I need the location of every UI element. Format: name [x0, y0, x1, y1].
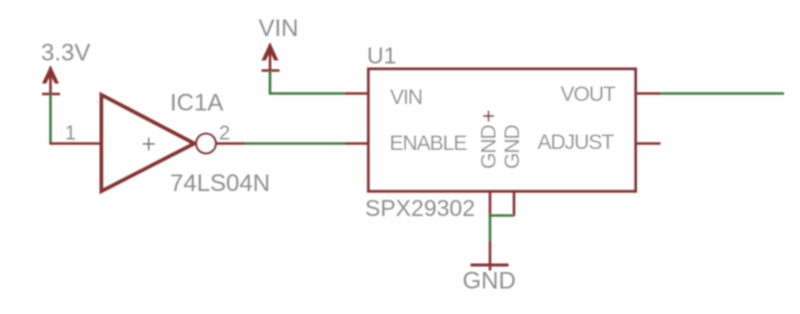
inverter IC1A triangle: [102, 95, 195, 191]
svg-text:VOUT: VOUT: [561, 83, 617, 106]
wire net GND jog: [490, 216, 514, 242]
ADJUST pin line of U1: [635, 142, 661, 145]
svg-text:ADJUST: ADJUST: [538, 131, 615, 154]
ground symbol bar: [471, 264, 509, 267]
svg-text:GND: GND: [478, 125, 501, 170]
ENABLE pin line of U1: [345, 142, 369, 145]
svg-text:IC1A: IC1A: [170, 90, 223, 117]
pin 1 line of IC1A: [50, 142, 102, 145]
svg-text:ENABLE: ENABLE: [390, 132, 468, 155]
IC U1 body: [369, 69, 636, 191]
plus mark GND+ pin: [483, 111, 494, 122]
wire net VIN (vertical + horizontal): [270, 71, 345, 94]
svg-text:2: 2: [219, 123, 230, 145]
ground symbol pin: [489, 241, 492, 271]
svg-text:74LS04N: 74LS04N: [170, 170, 270, 197]
svg-text:VIN: VIN: [259, 15, 299, 42]
svg-text:U1: U1: [367, 43, 396, 69]
svg-text:1: 1: [65, 123, 76, 145]
svg-text:GND: GND: [463, 268, 516, 295]
pin 2 line of IC1A: [215, 142, 245, 145]
svg-text:VIN: VIN: [390, 86, 422, 109]
wire net VOUT: [661, 92, 785, 95]
svg-text:GND: GND: [501, 125, 524, 170]
supply symbol VIN: [262, 42, 280, 70]
wire net pin2 to ENABLE: [245, 142, 345, 145]
svg-text:3.3V: 3.3V: [41, 40, 90, 67]
supply symbol 3.3V: [42, 65, 60, 94]
plus mark inside gate: [143, 138, 156, 151]
GND+ pin line of U1: [489, 191, 492, 216]
VOUT pin line of U1: [635, 92, 661, 95]
svg-text:SPX29302: SPX29302: [365, 195, 475, 221]
wire net to 3.3V (vertical): [49, 94, 52, 144]
GND pin line of U1: [513, 191, 516, 216]
inverter output bubble: [196, 134, 216, 154]
VIN pin line of U1: [345, 92, 369, 95]
